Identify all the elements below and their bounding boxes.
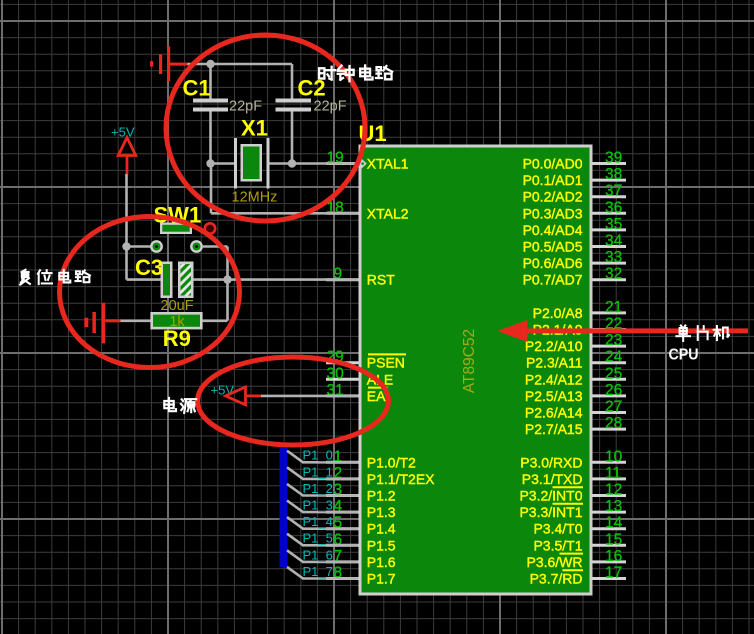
capacitor C3 positive (hatched) plate xyxy=(178,262,194,299)
pin 31 (EA) stub + number + name xyxy=(326,382,386,404)
svg-text:25: 25 xyxy=(605,365,622,382)
svg-text:15: 15 xyxy=(605,531,622,548)
wire: crystal right to XTAL1 pin xyxy=(268,162,358,165)
pin 12 (P3.2/INT0) stub + number + name xyxy=(519,482,626,504)
power +5V symbol (EA pin) xyxy=(211,383,262,405)
pin 6 (P1.5) stub + number + name xyxy=(326,531,396,553)
pin 30 (ALE) stub + number + name xyxy=(326,365,393,387)
wire: P1_3 net from bus to pin xyxy=(287,501,358,513)
svg-text:P2.7/A15: P2.7/A15 xyxy=(525,421,583,437)
annotation arrow: CPU pointer xyxy=(498,320,749,342)
wire: XTAL2 horizontal xyxy=(211,212,358,215)
svg-text:35: 35 xyxy=(605,216,622,233)
svg-text:10: 10 xyxy=(605,448,623,465)
pin 19 (XTAL1) stub + number + name xyxy=(326,150,409,172)
svg-text:16: 16 xyxy=(605,548,622,565)
label: 电源 (power) xyxy=(164,398,196,413)
pin 4 (P1.3) stub + number + name xyxy=(326,498,396,520)
power +5V symbol (reset circuit) xyxy=(111,125,136,175)
wire: top net from ground to C2 top xyxy=(187,63,292,66)
wire: right vertical (switch to R9) xyxy=(226,247,229,321)
annotation ellipse: reset circuit xyxy=(60,217,240,368)
wire: P1_6 net from bus to pin xyxy=(287,550,358,562)
pin 8 (P1.7) stub + number + name xyxy=(326,565,396,587)
svg-text:PSEN: PSEN xyxy=(367,355,405,371)
svg-text:P0.2/AD2: P0.2/AD2 xyxy=(523,189,583,205)
svg-text:12: 12 xyxy=(605,482,622,499)
svg-text:C3: C3 xyxy=(135,255,163,280)
svg-text:13: 13 xyxy=(605,498,622,515)
pin 23 (P2.2/A10) stub + number + name xyxy=(525,332,626,354)
wire: P1_0 net from bus to pin xyxy=(287,451,358,463)
wire: P1_1 net from bus to pin xyxy=(287,467,358,479)
pin 38 (P0.1/AD1) stub + number + name xyxy=(523,166,626,188)
wire: ground to R9 left xyxy=(121,319,152,322)
svg-text:P3.4/T0: P3.4/T0 xyxy=(533,521,582,537)
bus: P1 blue bus bar xyxy=(280,442,288,567)
pin 32 (P0.7/AD7) stub + number + name xyxy=(523,266,626,288)
pin 5 (P1.4) stub + number + name xyxy=(326,515,396,537)
svg-text:P1.6: P1.6 xyxy=(367,554,396,570)
wire: C3 right plate to RST node xyxy=(194,278,228,281)
svg-text:23: 23 xyxy=(605,332,622,349)
svg-text:P2.0/A8: P2.0/A8 xyxy=(533,305,583,321)
svg-text:P1.7: P1.7 xyxy=(367,571,396,587)
pin 21 (P2.0/A8) stub + number + name xyxy=(533,299,626,321)
pin 1 (P1.0/T2) stub + number + name xyxy=(326,448,416,470)
overline for active-low pin name (row 20) xyxy=(553,486,584,488)
pin 11 (P3.1/TXD) stub + number + name xyxy=(522,465,626,487)
ground symbol (clock circuit) xyxy=(150,46,188,81)
svg-text:+5V: +5V xyxy=(211,383,235,398)
crystal X1 xyxy=(236,138,269,189)
wire: P1_2 net from bus to pin xyxy=(287,484,358,496)
svg-text:P3.5/T1: P3.5/T1 xyxy=(533,537,582,553)
XTAL1 clock input marker xyxy=(361,158,367,169)
pin 16 (P3.6/WR) stub + number + name xyxy=(526,548,626,570)
capacitor C3 negative plate xyxy=(161,262,173,299)
wire: +5V to EA pin xyxy=(261,395,358,398)
svg-text:P0.7/AD7: P0.7/AD7 xyxy=(523,272,583,288)
ground symbol (reset circuit) xyxy=(84,303,120,344)
svg-text:P1_0: P1_0 xyxy=(303,448,333,463)
svg-text:22pF: 22pF xyxy=(229,99,262,115)
svg-text:28: 28 xyxy=(605,415,622,432)
pin 29 (PSEN) stub + number + name xyxy=(326,349,405,371)
svg-text:26: 26 xyxy=(605,382,622,399)
overline for active-low pin name (row 21) xyxy=(553,503,584,505)
pin 37 (P0.2/AD2) stub + number + name xyxy=(523,183,626,205)
svg-text:P2.4/A12: P2.4/A12 xyxy=(525,371,583,387)
svg-text:P1_4: P1_4 xyxy=(303,514,333,529)
svg-text:24: 24 xyxy=(605,349,623,366)
svg-text:P2.6/A14: P2.6/A14 xyxy=(525,405,583,421)
wire: C2 bottom vertical xyxy=(291,112,294,164)
svg-text:P1_5: P1_5 xyxy=(303,531,333,546)
svg-text:33: 33 xyxy=(605,249,622,266)
wire: +5V down to switch node xyxy=(125,174,128,247)
svg-text:P0.1/AD1: P0.1/AD1 xyxy=(523,172,583,188)
pin 35 (P0.4/AD4) stub + number + name xyxy=(523,216,626,238)
pin 36 (P0.3/AD3) stub + number + name xyxy=(523,199,626,221)
pin 2 (P1.1/T2EX) stub + number + name xyxy=(326,465,435,487)
svg-text:P0.3/AD3: P0.3/AD3 xyxy=(523,205,583,221)
svg-text:AT89C52: AT89C52 xyxy=(461,329,478,393)
annotation ellipse: power xyxy=(198,357,389,445)
overline for pin 31 EA xyxy=(368,387,388,389)
junction node at crystal right / C2 bottom / XTAL1 xyxy=(288,159,296,167)
svg-text:R9: R9 xyxy=(163,326,191,351)
wire: node down to C3 left xyxy=(125,247,128,280)
svg-text:P1_2: P1_2 xyxy=(303,481,333,496)
svg-text:37: 37 xyxy=(605,183,622,200)
svg-text:P1.3: P1.3 xyxy=(367,504,396,520)
junction node at crystal left / C1 bottom / XTAL2 xyxy=(206,159,214,167)
label: 单片机 (microcontroller) xyxy=(676,325,729,340)
wire: RST node to chip RST pin xyxy=(228,278,359,281)
svg-text:P1.0/T2: P1.0/T2 xyxy=(367,454,416,470)
wire: node to SW1 left terminal xyxy=(127,245,152,248)
svg-text:P0.4/AD4: P0.4/AD4 xyxy=(523,222,583,238)
svg-text:P0.6/AD6: P0.6/AD6 xyxy=(523,255,583,271)
svg-text:XTAL1: XTAL1 xyxy=(367,156,409,172)
pin 24 (P2.3/A11) stub + number + name xyxy=(526,349,626,371)
wire: node to crystal left xyxy=(211,162,236,165)
resistor R9 xyxy=(150,312,202,330)
svg-text:P0.0/AD0: P0.0/AD0 xyxy=(523,156,583,172)
svg-text:RST: RST xyxy=(367,272,395,288)
svg-text:P1_7: P1_7 xyxy=(303,564,333,579)
pin 9 (RST) stub + number + name xyxy=(326,266,395,288)
svg-text:11: 11 xyxy=(605,465,621,482)
pin 14 (P3.4/T0) stub + number + name xyxy=(533,515,626,537)
wire: R9 right to vertical xyxy=(203,319,228,322)
svg-text:P1_1: P1_1 xyxy=(303,464,333,479)
svg-text:P3.7/RD: P3.7/RD xyxy=(530,571,583,587)
svg-text:39: 39 xyxy=(605,150,622,167)
pin 10 (P3.0/RXD) stub + number + name xyxy=(520,448,626,470)
overline for active-low pin name (row 24) xyxy=(560,553,584,555)
pin 7 (P1.6) stub + number + name xyxy=(326,548,396,570)
svg-text:P1.1/T2EX: P1.1/T2EX xyxy=(367,471,435,487)
wire: SW1 right terminal to right vertical xyxy=(202,245,228,248)
wire: C2 top vertical xyxy=(291,64,294,99)
overline for pin 29 PSEN xyxy=(368,353,406,355)
svg-text:P1.4: P1.4 xyxy=(367,521,396,537)
pin 39 (P0.0/AD0) stub + number + name xyxy=(523,150,626,172)
svg-text:P2.2/A10: P2.2/A10 xyxy=(525,338,583,354)
label: 复位电路 (reset circuit) xyxy=(20,270,90,285)
svg-text:XTAL2: XTAL2 xyxy=(367,205,409,221)
svg-text:P3.3/INT1: P3.3/INT1 xyxy=(519,504,582,520)
svg-text:22pF: 22pF xyxy=(314,99,347,115)
svg-text:CPU: CPU xyxy=(669,347,699,364)
pin 34 (P0.5/AD5) stub + number + name xyxy=(523,233,626,255)
pin 13 (P3.3/INT1) stub + number + name xyxy=(519,498,626,520)
svg-text:38: 38 xyxy=(605,166,622,183)
svg-text:21: 21 xyxy=(605,299,622,316)
svg-text:P1.5: P1.5 xyxy=(367,537,396,553)
capacitor C2 plates xyxy=(276,99,312,112)
svg-text:+5V: +5V xyxy=(111,125,135,140)
svg-text:X1: X1 xyxy=(241,116,268,141)
annotation ellipse: clock circuit xyxy=(166,35,365,221)
svg-text:P3.0/RXD: P3.0/RXD xyxy=(520,454,582,470)
overline for active-low pin name (row 25) xyxy=(563,569,584,571)
junction node +5V / SW1 / C3 xyxy=(122,242,130,250)
wire: C1 top vertical xyxy=(209,64,212,99)
svg-text:P0.5/AD5: P0.5/AD5 xyxy=(523,239,583,255)
wire: to C3 left plate xyxy=(127,278,162,281)
svg-text:36: 36 xyxy=(605,199,622,216)
svg-text:12MHz: 12MHz xyxy=(232,189,278,205)
svg-text:C1: C1 xyxy=(183,76,211,101)
pin 27 (P2.6/A14) stub + number + name xyxy=(525,399,626,421)
svg-text:17: 17 xyxy=(605,565,622,582)
pin 33 (P0.6/AD6) stub + number + name xyxy=(523,249,626,271)
svg-text:P2.3/A11: P2.3/A11 xyxy=(526,355,583,371)
pin 3 (P1.2) stub + number + name xyxy=(326,482,396,504)
svg-text:14: 14 xyxy=(605,515,623,532)
svg-text:20uF: 20uF xyxy=(161,298,194,314)
svg-text:P1_6: P1_6 xyxy=(303,547,333,562)
pin 22 (P2.1/A9) stub + number + name xyxy=(533,316,626,338)
svg-text:32: 32 xyxy=(605,266,622,283)
pin 15 (P3.5/T1) stub + number + name xyxy=(533,531,626,553)
svg-text:P1_3: P1_3 xyxy=(303,498,333,513)
wire: XTAL2 vertical elbow xyxy=(210,164,213,214)
pin 25 (P2.4/A12) stub + number + name xyxy=(525,365,626,387)
junction node at C1 top / ground xyxy=(206,60,214,68)
wire: C1 bottom vertical xyxy=(209,112,212,164)
wire: P1_7 net from bus to pin xyxy=(287,567,358,579)
pin 28 (P2.7/A15) stub + number + name xyxy=(525,415,626,437)
svg-text:34: 34 xyxy=(605,233,623,250)
svg-text:P3.6/WR: P3.6/WR xyxy=(526,554,582,570)
pin 18 (XTAL2) stub + number + name xyxy=(326,199,409,221)
wire: P1_4 net from bus to pin xyxy=(287,517,358,529)
svg-text:P1.2: P1.2 xyxy=(367,488,396,504)
switch SW1 xyxy=(150,223,215,253)
svg-text:P3.2/INT0: P3.2/INT0 xyxy=(519,488,582,504)
svg-text:P2.5/A13: P2.5/A13 xyxy=(525,388,583,404)
junction node C3 / RST / R9 xyxy=(223,275,231,283)
svg-text:P3.1/TXD: P3.1/TXD xyxy=(522,471,583,487)
pin 17 (P3.7/RD) stub + number + name xyxy=(530,565,626,587)
op-amp U1 body: IC AT89C52 xyxy=(359,145,593,596)
svg-text:27: 27 xyxy=(605,399,622,416)
capacitor C1 plates xyxy=(193,99,228,112)
pin 26 (P2.5/A13) stub + number + name xyxy=(525,382,626,404)
label: 时钟电路 (clock circuit) xyxy=(319,65,392,81)
wire: P1_5 net from bus to pin xyxy=(287,534,358,546)
svg-text:30: 30 xyxy=(327,365,345,382)
